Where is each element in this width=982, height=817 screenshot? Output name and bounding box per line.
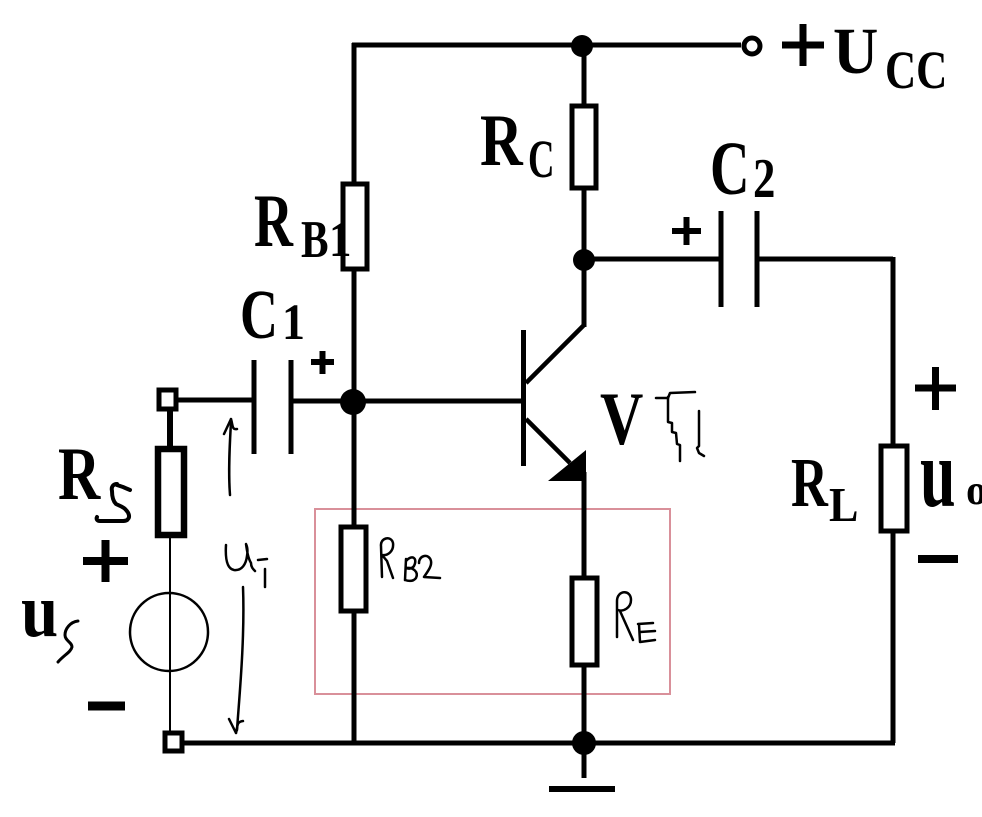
svg-text:u: u <box>21 569 58 653</box>
svg-text:2: 2 <box>753 147 775 209</box>
svg-text:1: 1 <box>329 213 351 268</box>
svg-text:R: R <box>480 100 523 182</box>
svg-text:V: V <box>600 377 643 461</box>
svg-text:u: u <box>920 420 956 528</box>
svg-text:C: C <box>240 277 278 354</box>
svg-text:CC: CC <box>885 39 947 100</box>
svg-text:R: R <box>791 444 829 522</box>
svg-text:o: o <box>966 468 982 514</box>
svg-text:C: C <box>528 129 555 189</box>
svg-text:L: L <box>829 478 858 533</box>
svg-text:U: U <box>833 15 878 88</box>
svg-text:1: 1 <box>282 295 305 351</box>
svg-text:C: C <box>710 127 750 211</box>
svg-text:R: R <box>254 181 294 264</box>
svg-text:B: B <box>301 211 329 269</box>
svg-text:R: R <box>58 432 101 516</box>
